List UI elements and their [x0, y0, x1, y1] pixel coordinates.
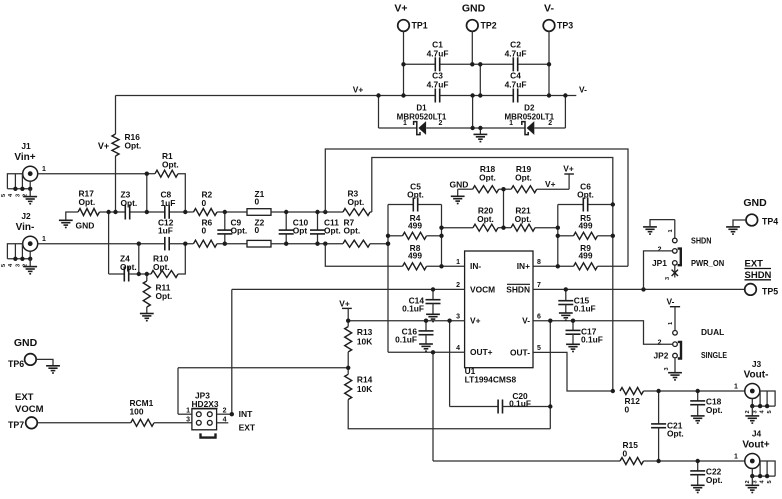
svg-text:SHDN: SHDN	[506, 284, 530, 294]
wire V+ (pin 3)	[348, 320, 464, 322]
junction	[386, 234, 390, 238]
svg-text:3: 3	[15, 264, 21, 267]
wire OUT+ (pin 4)	[388, 351, 465, 353]
svg-text:Opt.: Opt.	[162, 159, 179, 169]
svg-text:EXT: EXT	[15, 392, 34, 403]
svg-text:499: 499	[579, 251, 593, 261]
wire	[418, 204, 442, 206]
junction	[696, 459, 700, 463]
svg-text:EXT: EXT	[239, 423, 256, 433]
capacitor C21 Opt.	[651, 424, 666, 428]
svg-text:Opt.: Opt.	[407, 190, 424, 200]
label Z4 Opt.	[120, 254, 137, 272]
junction	[470, 126, 474, 130]
capacitor C14 0.1uF	[426, 300, 441, 304]
label C15 0.1uF	[574, 296, 596, 314]
wire	[317, 212, 319, 230]
ground	[23, 197, 37, 204]
label R6 0	[202, 217, 213, 235]
junction	[323, 242, 327, 246]
junction	[20, 257, 24, 261]
wire OUT+ to R15	[432, 352, 434, 461]
label R14 10K	[357, 375, 373, 394]
svg-text:Opt.: Opt.	[120, 262, 137, 272]
svg-text:1: 1	[734, 383, 738, 390]
wire	[498, 227, 511, 229]
junction	[750, 474, 754, 478]
wire	[480, 63, 513, 65]
jumper JP2 position 3	[673, 353, 678, 358]
label R13 10K	[357, 327, 373, 346]
wire VOCM (pin 2)	[232, 288, 465, 290]
shunt on JP2	[678, 342, 681, 359]
wire	[503, 189, 505, 228]
svg-text:HD2X3: HD2X3	[192, 399, 219, 409]
wire	[449, 321, 451, 407]
capacitor C6 Opt.	[583, 198, 587, 212]
wire	[224, 234, 226, 244]
svg-text:Opt.: Opt.	[706, 405, 723, 415]
svg-text:3: 3	[664, 367, 670, 370]
wire	[697, 475, 699, 486]
wire	[178, 244, 185, 274]
ground	[745, 485, 759, 492]
label C1 4.7uF	[427, 40, 449, 59]
wire IN- bus (right)	[441, 205, 443, 267]
wire	[29, 251, 31, 259]
connector J2 Vin-	[23, 236, 38, 251]
wire	[472, 96, 474, 129]
svg-text:0.1uF: 0.1uF	[574, 304, 596, 314]
ground	[419, 344, 433, 351]
junction	[478, 93, 482, 97]
wire	[535, 227, 558, 229]
ground	[426, 314, 440, 321]
svg-text:0: 0	[623, 449, 628, 459]
junction	[439, 226, 443, 230]
label RCM1 100	[130, 398, 154, 416]
svg-text:Opt.: Opt.	[121, 198, 138, 208]
junction	[548, 319, 552, 323]
wire	[479, 64, 481, 95]
svg-text:0.1uF: 0.1uF	[509, 398, 531, 408]
wire VOCM divider tap	[178, 367, 348, 369]
wire JP1 shield flag	[650, 220, 675, 227]
wire	[751, 469, 753, 477]
svg-text:TP4: TP4	[762, 217, 778, 227]
svg-text:0.1uF: 0.1uF	[395, 335, 417, 345]
pin circle JP3-2	[207, 412, 212, 417]
capacitor C15 0.1uF	[558, 301, 573, 305]
junction	[315, 242, 319, 246]
capacitor C17 0.1uF	[566, 330, 581, 334]
resistor R15	[620, 458, 644, 465]
svg-text:D1: D1	[416, 104, 427, 113]
ground	[59, 220, 73, 227]
wire	[147, 173, 155, 175]
capacitor C3	[435, 89, 439, 103]
junction	[765, 474, 769, 478]
wire	[347, 352, 349, 374]
svg-text:499: 499	[579, 221, 593, 231]
wire	[169, 211, 193, 213]
wire V- return	[348, 400, 550, 429]
junction	[401, 93, 405, 97]
junction	[556, 226, 560, 230]
capacitor C2	[513, 57, 517, 71]
test point TP4	[746, 214, 758, 226]
label R20 Opt.	[477, 206, 494, 224]
label R12 0	[625, 396, 641, 414]
label R8 499	[408, 243, 422, 261]
wire	[169, 243, 193, 245]
label C9 Opt.	[231, 217, 248, 235]
wire	[537, 188, 569, 190]
svg-text:Opt.: Opt.	[577, 190, 594, 200]
wire	[271, 243, 343, 245]
svg-text:DUAL: DUAL	[701, 327, 724, 337]
jumper JP2 position 1 (DUAL)	[673, 331, 678, 336]
wire	[427, 235, 442, 237]
label R3 Opt.	[348, 189, 365, 207]
test point TP3	[543, 20, 555, 32]
capacitor C8 1uF	[165, 205, 169, 219]
wire	[154, 422, 192, 424]
resistor R7	[343, 240, 370, 247]
wire	[759, 461, 761, 476]
svg-text:SHDN: SHDN	[691, 236, 712, 246]
label C12 1uF	[158, 217, 174, 235]
wire	[440, 63, 481, 65]
wire J2 shield	[7, 244, 22, 259]
wire	[378, 96, 380, 129]
wire	[518, 63, 549, 65]
ground	[668, 373, 682, 380]
label R21 Opt.	[515, 206, 532, 224]
svg-text:SINGLE: SINGLE	[701, 350, 727, 360]
svg-text:0: 0	[255, 196, 260, 206]
svg-text:5: 5	[537, 345, 541, 352]
svg-text:GND: GND	[76, 220, 95, 230]
svg-text:5: 5	[767, 480, 773, 483]
wire	[36, 359, 53, 365]
svg-text:V+: V+	[339, 298, 350, 308]
wire	[425, 335, 427, 344]
junction	[223, 210, 227, 214]
svg-text:TP3: TP3	[557, 20, 573, 30]
wire OUT+ line	[433, 460, 620, 462]
ground	[745, 416, 759, 423]
svg-text:3: 3	[456, 313, 460, 320]
wire JP3 pin2 stub	[217, 413, 232, 415]
impedance Z3 (capacitor, Opt.)	[125, 205, 129, 220]
wire	[100, 211, 109, 213]
ground	[474, 134, 488, 141]
label C10 Opt	[293, 217, 309, 235]
underline	[745, 268, 772, 270]
wire	[425, 321, 427, 331]
wire	[29, 181, 31, 189]
label C14 0.1uF	[402, 295, 424, 313]
label C17 0.1uF	[581, 326, 603, 344]
svg-text:Opt.: Opt.	[477, 214, 494, 224]
ground	[691, 485, 705, 492]
wire to J4	[644, 460, 745, 462]
capacitor C1	[435, 57, 439, 71]
label C8 1uF	[161, 190, 176, 208]
wire	[697, 461, 699, 471]
svg-text:3: 3	[186, 417, 190, 424]
pin circle JP3-3	[196, 420, 201, 425]
svg-text:5: 5	[1, 264, 7, 267]
junction	[611, 202, 615, 206]
svg-text:Opt.: Opt.	[153, 262, 170, 272]
svg-text:INT: INT	[239, 409, 254, 419]
wire	[21, 174, 23, 189]
junction	[113, 210, 117, 214]
resistor R13	[345, 327, 352, 352]
label R19 Opt.	[515, 164, 532, 182]
label Z1 0	[255, 189, 265, 207]
wire	[21, 244, 23, 259]
svg-text:V+: V+	[545, 179, 556, 189]
wire	[147, 273, 151, 275]
wire JP1 to SHDN	[644, 251, 673, 290]
wire	[115, 156, 117, 212]
wire	[565, 289, 567, 300]
svg-text:2: 2	[456, 282, 460, 289]
capacitor C20 0.1uF	[498, 400, 502, 414]
svg-text:1: 1	[456, 259, 460, 266]
junction	[765, 404, 769, 408]
shunt below JP3	[201, 433, 216, 437]
wire	[766, 391, 768, 406]
junction	[137, 272, 141, 276]
wire	[564, 96, 566, 129]
wire	[224, 212, 226, 230]
ground	[23, 267, 37, 274]
capacitor C18 Opt.	[690, 401, 705, 405]
wire	[177, 368, 179, 414]
ground	[643, 227, 657, 234]
wire	[217, 211, 247, 213]
op-amp U1 LT1994CMS8	[465, 251, 533, 368]
junction	[439, 234, 443, 238]
wire	[217, 243, 247, 245]
svg-text:3: 3	[15, 194, 21, 197]
junction	[758, 404, 762, 408]
wire VOCM to JP3	[231, 289, 233, 414]
wire	[109, 273, 125, 275]
svg-text:4: 4	[223, 417, 227, 424]
resistor R12	[620, 388, 644, 395]
resistor RCM1	[131, 419, 154, 426]
svg-text:2: 2	[745, 480, 751, 483]
svg-text:Opt.: Opt.	[515, 172, 532, 182]
wire	[146, 274, 148, 281]
svg-text:4.7uF: 4.7uF	[427, 49, 449, 59]
wire V+ rail	[116, 95, 436, 97]
svg-text:GND: GND	[462, 3, 486, 15]
jumper JP2 position 2	[673, 342, 678, 347]
svg-text:8: 8	[537, 259, 541, 266]
wire ground stub	[479, 128, 481, 134]
wire TP2 stem	[471, 31, 473, 64]
wire J4 shield	[760, 461, 775, 476]
svg-text:V-: V-	[544, 3, 554, 15]
power flag V+ bar	[342, 307, 352, 309]
svg-text:499: 499	[408, 251, 422, 261]
label C21 Opt.	[667, 420, 684, 438]
ground	[140, 314, 154, 321]
junction	[478, 62, 482, 66]
capacitor C9 Opt.	[217, 230, 232, 234]
label R2 0	[202, 190, 213, 208]
label C11 Opt.	[324, 217, 341, 235]
junction	[145, 172, 149, 176]
junction	[145, 210, 149, 214]
impedance Z2 (0 ohm)	[247, 240, 271, 247]
svg-text:1: 1	[42, 166, 46, 173]
wire V- (pin 6) to JP2	[533, 321, 672, 345]
svg-text:1: 1	[509, 120, 513, 127]
wire	[549, 321, 551, 407]
svg-text:JP2: JP2	[654, 350, 669, 360]
wire JP1 pin3 stub	[674, 266, 676, 278]
junction	[478, 126, 482, 130]
wire	[751, 399, 753, 407]
svg-text:TP6: TP6	[8, 359, 24, 369]
junction	[470, 93, 474, 97]
wire SHDN (pin 7) to TP5	[533, 288, 745, 290]
test point TP7	[26, 417, 38, 429]
svg-text:Opt.: Opt.	[79, 197, 96, 207]
wire	[457, 189, 459, 196]
wire	[752, 405, 775, 407]
label Z3 Opt.	[121, 190, 138, 208]
svg-text:Opt.: Opt.	[324, 226, 341, 236]
resistor R20	[473, 224, 498, 231]
wire to J3	[644, 390, 745, 392]
svg-text:1: 1	[668, 322, 674, 325]
capacitor C4	[513, 89, 517, 103]
capacitor C11 Opt.	[310, 230, 325, 234]
svg-text:Opt: Opt	[293, 226, 308, 236]
svg-text:Opt.: Opt.	[231, 226, 248, 236]
wire	[558, 204, 584, 206]
wire OUT- (pin 5)	[533, 352, 613, 391]
svg-text:1: 1	[668, 229, 674, 232]
wire	[558, 235, 574, 237]
wire	[499, 188, 512, 190]
label C16 0.1uF	[395, 326, 417, 344]
svg-text:3: 3	[752, 480, 758, 483]
impedance Z1 (0 ohm)	[247, 209, 271, 216]
svg-text:10K: 10K	[357, 384, 372, 394]
junction	[28, 187, 32, 191]
svg-text:GND: GND	[450, 180, 469, 190]
jumper JP1 position 2	[673, 249, 678, 254]
wire	[379, 127, 417, 129]
svg-text:Opt.: Opt.	[348, 197, 365, 207]
test point TP6	[25, 354, 37, 366]
resistor R8	[403, 263, 427, 270]
underline of HD2X3	[192, 407, 218, 409]
junction	[564, 287, 568, 291]
svg-text:TP2: TP2	[481, 20, 497, 30]
wire	[442, 227, 474, 229]
svg-text:0: 0	[202, 226, 207, 236]
svg-text:Opt.: Opt.	[125, 140, 142, 150]
svg-text:0: 0	[625, 404, 630, 414]
label R18 Opt.	[479, 164, 496, 182]
wire J1 shield	[7, 174, 22, 189]
resistor R9	[574, 263, 598, 270]
label R4 499	[408, 213, 422, 231]
junction	[230, 412, 234, 416]
junction	[386, 242, 390, 246]
svg-text:V+: V+	[470, 316, 481, 326]
wire	[115, 96, 117, 135]
ground	[691, 416, 705, 423]
junction	[223, 242, 227, 246]
junction	[346, 366, 350, 370]
ground	[566, 344, 580, 351]
junction	[323, 210, 327, 214]
label R10 Opt.	[153, 254, 170, 272]
no-connect X on JP1 pin 3	[672, 270, 678, 276]
wire	[388, 204, 413, 206]
ground	[451, 196, 465, 203]
wire	[285, 234, 287, 244]
junction	[611, 234, 615, 238]
junction	[431, 287, 435, 291]
wire	[7, 188, 30, 190]
svg-text:D2: D2	[524, 104, 535, 113]
resistor R10	[151, 271, 178, 278]
label R9 499	[579, 243, 593, 261]
wire	[271, 211, 343, 213]
label C4 4.7uF	[505, 71, 527, 90]
wire	[572, 321, 574, 331]
resistor R2	[194, 209, 217, 216]
impedance Z4 (capacitor, Opt.)	[124, 267, 128, 282]
wire	[129, 273, 147, 275]
svg-text:JP1: JP1	[652, 258, 667, 268]
overline of SHDN pin name	[507, 283, 530, 285]
wire OUT+ bus (left)	[387, 205, 389, 353]
capacitor C5 Opt.	[413, 198, 417, 212]
wire	[370, 243, 388, 245]
svg-text:GND: GND	[14, 337, 38, 349]
svg-text:10K: 10K	[357, 336, 372, 346]
wire	[14, 174, 16, 189]
label R1 Opt.	[162, 151, 179, 169]
svg-text:7: 7	[537, 282, 541, 289]
wire TP3 stem	[548, 31, 550, 95]
junction	[284, 210, 288, 214]
junction	[376, 93, 380, 97]
wire JP2 pin3 stub	[674, 358, 676, 372]
junction	[137, 242, 141, 246]
svg-text:Opt.: Opt.	[156, 291, 173, 301]
label R11 Opt.	[156, 283, 173, 301]
svg-text:Vin-: Vin-	[16, 222, 35, 233]
svg-text:IN+: IN+	[517, 261, 530, 271]
junction	[556, 264, 560, 268]
wire	[658, 428, 660, 461]
wire IN+ bus (left)	[557, 205, 559, 267]
